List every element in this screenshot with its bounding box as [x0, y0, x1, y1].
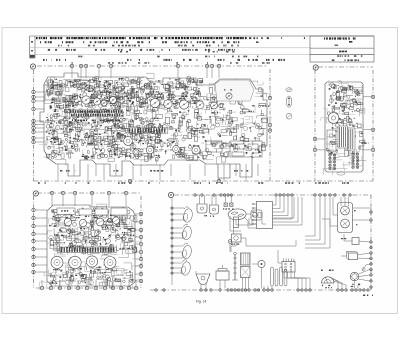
battery meter label top: [321, 270, 334, 272]
callout labels above main board: [72, 62, 271, 64]
tuner board corner pad P2: [313, 65, 318, 70]
amp PCB transistor row 1: [64, 217, 119, 227]
erase head bar: [234, 217, 239, 228]
adjust symbol arrow oval: [286, 96, 291, 107]
parts list text row 7: [43, 59, 285, 61]
wiring bottom bus pads: [155, 289, 370, 292]
tuner board pad stub wires: [317, 97, 371, 150]
tuner PCB top component cluster: [321, 80, 367, 175]
output transistor block: [338, 203, 353, 233]
adjust symbol circle: [286, 113, 292, 119]
plug block top wire: [278, 250, 282, 263]
amp PCB outline: [47, 205, 135, 286]
bias resistor box: [344, 234, 370, 245]
amp PCB top IC rects: [79, 208, 127, 215]
amp PCB label box: [57, 208, 75, 214]
amp board corner pad P3: [33, 191, 38, 196]
main board border pads top: [70, 64, 220, 67]
battery meter wires: [330, 277, 346, 289]
parts list row A designator: [31, 41, 33, 43]
callout labels above lower board: [38, 182, 349, 184]
main PCB component cluster left: [46, 77, 133, 161]
main PCB dense cluster top band: [46, 76, 203, 109]
leaf switch block: [252, 202, 272, 229]
tuner board dashed border: [315, 67, 373, 181]
main PCB outline: [40, 73, 267, 178]
main PCB component cluster centre: [126, 80, 203, 162]
bottom-right footnote: [363, 295, 373, 297]
speaker SP4: [180, 260, 191, 277]
left pad column for speakers: [171, 207, 173, 274]
amp PCB lower clutter: [50, 266, 134, 288]
parts list table frame: [30, 36, 375, 58]
wiring right riser pads: [370, 211, 373, 289]
amp board border pads top: [50, 191, 127, 194]
main PCB connector comb 1: [69, 110, 123, 117]
bus riser wires right of leaf switch: [305, 197, 330, 248]
amp board border pads right: [139, 212, 142, 282]
tuner PCB pad grid left: [329, 154, 336, 170]
speaker SP1: [182, 207, 193, 224]
amp PCB connector comb: [60, 247, 116, 253]
tuner PCB IF transformer 1: [338, 126, 348, 148]
main PCB label row under comb: [72, 120, 120, 122]
cassette motor wires: [355, 264, 370, 289]
head assembly wires: [230, 214, 266, 234]
record play head assembly: [228, 209, 246, 220]
tuner PCB pad grid right: [352, 153, 359, 169]
main PCB component cluster right: [200, 86, 269, 163]
wiring mid pad leg: [229, 244, 231, 253]
amp board border pads left: [32, 208, 35, 273]
amp board pad stub wires: [36, 195, 140, 286]
main PCB IC outline (trapezoid): [215, 80, 254, 101]
tuner PCB bottom label: [337, 172, 345, 175]
wiring harness middle: [231, 197, 302, 252]
cassette motor: [350, 272, 359, 281]
wiring top bus corner pad P4: [168, 192, 173, 197]
wiring top bus: [174, 194, 371, 196]
amp board dashed border: [34, 193, 142, 288]
speaker SP3: [181, 243, 192, 260]
tuner PCB cluster 2: [328, 83, 363, 113]
motor label mark: [362, 268, 365, 271]
leaf switch wires to bus: [273, 197, 293, 219]
interconnect plug block: [282, 259, 295, 273]
tuner board border pads: [313, 95, 374, 151]
adjust symbol eye: [286, 88, 292, 92]
main board dashed service border: [34, 66, 271, 181]
vertical link wire: [171, 198, 173, 285]
tuner PCB trimmer: [328, 113, 339, 124]
amp board border pads bottom: [40, 286, 137, 289]
tuner PCB coil block: [327, 130, 336, 151]
earphone jack J2: [210, 195, 219, 214]
capstan electrode: [232, 252, 238, 280]
plug block wires down: [284, 272, 310, 289]
parts list text row 2: [40, 41, 259, 43]
relay block: [216, 265, 229, 289]
motor switch box: [232, 234, 242, 242]
tuner PCB outline: [325, 82, 363, 172]
parts list text row 3: [58, 45, 239, 47]
parts list text row 1: [36, 37, 305, 39]
speaker SP2: [181, 224, 192, 241]
main PCB connector comb 2: [128, 128, 168, 133]
parts list text row 4: [48, 49, 235, 51]
belt group wires: [264, 286, 272, 289]
amp PCB power transistor row: [51, 256, 116, 269]
speaker lead wires: [174, 208, 185, 273]
main PCB large transistors row: [82, 93, 232, 109]
wiring top bus pads: [194, 194, 352, 197]
title block text: [324, 37, 356, 39]
mic jack J1: [197, 195, 207, 213]
drive transformer: [241, 253, 251, 289]
battery level meter: [321, 277, 335, 283]
parts list text row 5: [120, 51, 234, 53]
amp PCB trace pattern: [40, 204, 143, 290]
parts list text row 6: [78, 56, 258, 58]
idler wheel: [252, 260, 265, 288]
amp PCB mid small transistors: [56, 228, 126, 246]
output transistor wires: [322, 197, 371, 226]
main PCB large capacitors lower row: [124, 137, 200, 155]
amp PCB component clutter: [49, 208, 137, 255]
power switch 3d box: [341, 252, 370, 260]
pinch mechanism: [251, 210, 262, 220]
main PCB trace pattern: [39, 73, 272, 165]
labels under main PCB: [60, 170, 248, 172]
headphone cup jack: [196, 271, 210, 289]
main PCB bottom lead wires: [58, 164, 258, 181]
main PCB dense cluster mid band: [46, 117, 164, 160]
tuner PCB IF transformer 2: [348, 128, 356, 150]
wires from left pads into board: [36, 92, 45, 142]
main board border pads right: [268, 96, 271, 132]
wires from top pads into board: [72, 68, 219, 78]
title block frame: [310, 36, 374, 62]
main board corner pad P1: [30, 64, 35, 69]
svg-text:Fig. 14: Fig. 14: [196, 300, 206, 304]
belt loop group: [271, 267, 287, 286]
wiring mid pad: [228, 240, 232, 244]
wiring bottom bus: [150, 289, 371, 291]
bottom service line: [34, 180, 374, 182]
wiring right dashed riser: [370, 195, 372, 290]
battery meter label bottom: [322, 285, 332, 289]
main PCB small IC blocks: [44, 85, 262, 157]
battery polarity blocks: [224, 195, 233, 206]
main board border pads left: [32, 90, 35, 143]
bottom service line pads: [128, 179, 220, 182]
cassette motor labels: [351, 284, 360, 287]
tuner PCB mid cluster: [326, 108, 368, 156]
